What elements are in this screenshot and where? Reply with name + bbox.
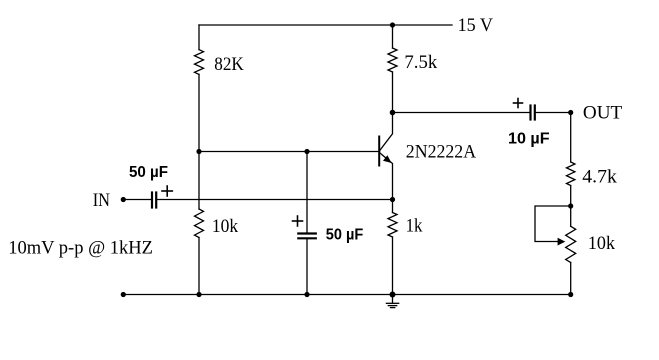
svg-text:IN: IN (93, 190, 111, 211)
node collector junction (390, 110, 396, 116)
capacitor C out 10uF (531, 106, 535, 120)
svg-text:7.5k: 7.5k (404, 52, 437, 73)
wire emitter rail (157, 199, 392, 201)
svg-text:1k: 1k (406, 215, 423, 236)
node bypass junction (304, 149, 309, 154)
ground (386, 295, 398, 308)
capacitor C in 50uF (152, 193, 156, 208)
node supply junction (390, 22, 395, 27)
label + polarity output cap (514, 99, 523, 108)
resistor 7.5k (388, 48, 397, 72)
svg-text:10mV p-p @ 1kHZ: 10mV p-p @ 1kHZ (8, 237, 153, 258)
wire pot wiper loop (535, 206, 571, 242)
node emitter junction (390, 197, 395, 202)
wire bypass vertical lower (306, 239, 308, 294)
svg-text:10k: 10k (588, 233, 616, 254)
wire 10k bottom lead to ground rail (198, 238, 200, 295)
label + polarity input cap (162, 186, 172, 196)
wiper arrow (558, 238, 566, 246)
wire IN to input cap (123, 199, 151, 201)
svg-text:10k: 10k (212, 216, 239, 237)
capacitor C bypass 50uF (298, 234, 316, 239)
node ground rail emitter (390, 292, 396, 298)
svg-text:15 V: 15 V (458, 15, 494, 36)
node ground rail divider (196, 292, 201, 297)
resistor 82K (195, 50, 204, 75)
wire bypass vertical upper (306, 152, 308, 233)
label + polarity bypass cap (293, 216, 303, 226)
wire OUT node down to 4.7k (570, 113, 572, 163)
resistor 1k (388, 213, 397, 238)
potentiometer 10k body (566, 226, 576, 262)
wire pot bottom to ground rail (570, 263, 572, 295)
resistor 4.7k (567, 162, 575, 186)
svg-text:4.7k: 4.7k (582, 167, 617, 188)
svg-text:82K: 82K (214, 54, 244, 75)
node ground rail bypass (304, 292, 309, 297)
resistor 10k divider (195, 209, 204, 238)
svg-text:50 µF: 50 µF (326, 227, 364, 244)
transistor emitter lead (380, 153, 393, 200)
wire 7.5k top lead (392, 25, 394, 48)
node ground rail left end (121, 292, 126, 297)
wire top supply rail (199, 24, 452, 26)
wire 1k bottom to ground rail (392, 237, 394, 295)
wire emitter to 1k (392, 200, 394, 213)
transistor collector lead (380, 113, 393, 151)
node IN terminal (121, 197, 126, 202)
svg-text:OUT: OUT (583, 103, 623, 124)
node OUT terminal (568, 110, 573, 115)
wire base rail (199, 151, 380, 153)
svg-text:50 µF: 50 µF (129, 164, 168, 181)
wire ground rail (123, 294, 570, 296)
wire output cap to OUT node (536, 112, 571, 114)
svg-text:10 µF: 10 µF (508, 131, 550, 148)
wire 82K top lead (198, 25, 200, 50)
svg-text:2N2222A: 2N2222A (406, 141, 477, 162)
node base divider junction (196, 149, 201, 154)
wire divider mid vertical down to 10k (198, 152, 200, 210)
node ground rail right end (568, 292, 573, 297)
wire collector to output cap (393, 112, 530, 114)
transistor emitter arrow (383, 155, 392, 163)
wire 82K bottom lead to base node (198, 74, 200, 151)
transistor Q1 2N2222A base bar (378, 137, 380, 166)
node 4.7k / pot junction (568, 203, 573, 208)
wire 7.5k bottom lead to collector node (392, 72, 394, 113)
wire 4.7k bottom to pot top (570, 186, 572, 227)
